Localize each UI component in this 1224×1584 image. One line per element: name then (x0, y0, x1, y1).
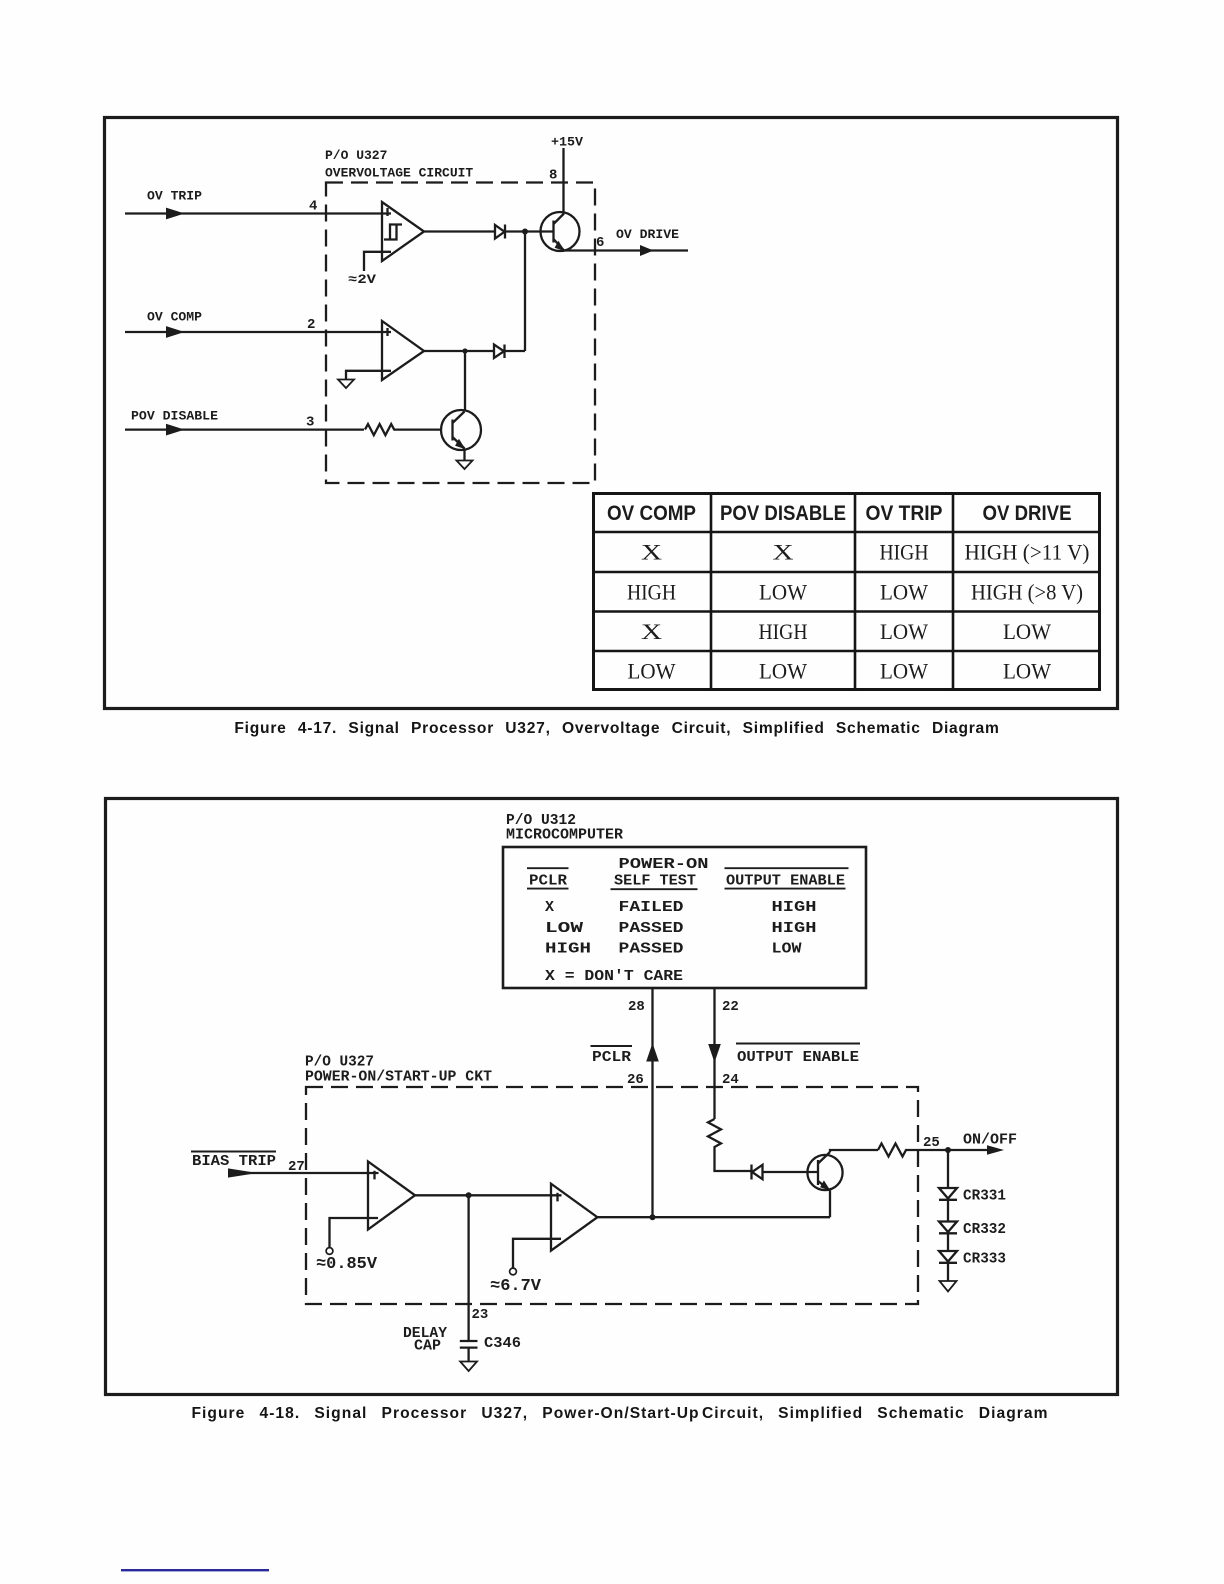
svg-text:≈2V: ≈2V (348, 272, 376, 287)
svg-text:22: 22 (722, 999, 739, 1015)
svg-text:POV DISABLE: POV DISABLE (720, 502, 846, 525)
svg-text:MICROCOMPUTER: MICROCOMPUTER (506, 827, 623, 844)
svg-text:OUTPUT ENABLE: OUTPUT ENABLE (737, 1049, 859, 1066)
svg-text:X: X (773, 540, 794, 565)
svg-text:OV DRIVE: OV DRIVE (983, 502, 1072, 525)
svg-text:2: 2 (307, 317, 315, 333)
svg-text:CR333: CR333 (963, 1251, 1006, 1268)
svg-text:ON/OFF: ON/OFF (963, 1132, 1017, 1149)
svg-text:PASSED: PASSED (619, 941, 684, 958)
svg-text:4: 4 (309, 199, 317, 215)
svg-text:PASSED: PASSED (619, 920, 684, 937)
svg-text:LOW: LOW (1003, 658, 1051, 683)
svg-text:26: 26 (627, 1072, 644, 1088)
svg-text:PCLR: PCLR (529, 872, 567, 889)
svg-text:CAP: CAP (414, 1338, 441, 1355)
svg-text:+15V: +15V (551, 135, 583, 150)
svg-text:PCLR: PCLR (592, 1049, 631, 1066)
svg-text:LOW: LOW (880, 579, 928, 604)
svg-text:OV TRIP: OV TRIP (866, 502, 943, 525)
svg-text:6: 6 (596, 235, 604, 251)
svg-text:BIAS TRIP: BIAS TRIP (192, 1153, 276, 1170)
svg-text:OV COMP: OV COMP (607, 502, 696, 525)
svg-text:X: X (641, 540, 662, 565)
svg-text:28: 28 (628, 999, 645, 1015)
svg-text:HIGH (>8 V): HIGH (>8 V) (971, 579, 1083, 604)
svg-text:HIGH: HIGH (759, 619, 808, 644)
svg-text:POV DISABLE: POV DISABLE (131, 409, 218, 424)
svg-text:HIGH: HIGH (545, 941, 591, 958)
svg-text:POWER-ON/START-UP CKT: POWER-ON/START-UP CKT (305, 1069, 492, 1086)
svg-text:LOW: LOW (545, 920, 583, 937)
svg-text:HIGH: HIGH (772, 899, 817, 916)
svg-text:LOW: LOW (759, 658, 807, 683)
svg-text:OV COMP: OV COMP (147, 310, 202, 325)
svg-text:P/O U327: P/O U327 (325, 148, 387, 163)
svg-text:HIGH: HIGH (627, 579, 676, 604)
svg-text:X: X (545, 899, 554, 916)
svg-text:HIGH (>11 V): HIGH (>11 V) (965, 540, 1090, 565)
svg-text:OV DRIVE: OV DRIVE (616, 227, 679, 242)
svg-text:27: 27 (288, 1159, 305, 1175)
svg-text:LOW: LOW (772, 941, 802, 958)
svg-text:23: 23 (472, 1307, 489, 1323)
svg-text:CR331: CR331 (963, 1188, 1006, 1205)
svg-text:HIGH: HIGH (772, 920, 817, 937)
svg-text:25: 25 (923, 1135, 940, 1151)
svg-text:SELF TEST: SELF TEST (614, 872, 696, 889)
svg-text:FAILED: FAILED (619, 899, 684, 916)
svg-text:24: 24 (722, 1072, 739, 1088)
svg-text:C346: C346 (484, 1335, 521, 1352)
svg-text:LOW: LOW (880, 619, 928, 644)
svg-text:≈0.85V: ≈0.85V (316, 1255, 378, 1274)
svg-text:CR332: CR332 (963, 1221, 1006, 1238)
svg-text:X = DON'T CARE: X = DON'T CARE (545, 968, 683, 985)
svg-text:OUTPUT ENABLE: OUTPUT ENABLE (726, 872, 845, 889)
svg-text:≈6.7V: ≈6.7V (490, 1277, 542, 1296)
svg-text:LOW: LOW (759, 579, 807, 604)
svg-text:3: 3 (306, 415, 314, 431)
svg-text:POWER-ON: POWER-ON (619, 856, 709, 873)
svg-text:LOW: LOW (628, 658, 676, 683)
svg-text:LOW: LOW (880, 658, 928, 683)
svg-text:OV TRIP: OV TRIP (147, 189, 202, 204)
svg-text:X: X (641, 619, 662, 644)
svg-text:OVERVOLTAGE CIRCUIT: OVERVOLTAGE CIRCUIT (325, 166, 473, 181)
svg-text:LOW: LOW (1003, 619, 1051, 644)
svg-text:8: 8 (549, 168, 557, 184)
svg-text:HIGH: HIGH (880, 540, 929, 565)
